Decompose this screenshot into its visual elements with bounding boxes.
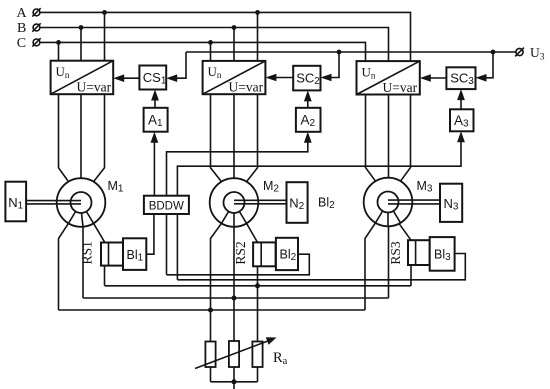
wire bus2 xyxy=(83,297,389,299)
wire rotor M2 left xyxy=(211,223,222,341)
svg-text:U=var: U=var xyxy=(383,80,418,95)
wire bus1 xyxy=(105,285,412,287)
wire rotor M1 mid xyxy=(82,227,84,299)
terminal C xyxy=(32,38,40,46)
wire A3 to SC3 xyxy=(460,92,462,109)
terminal U3 xyxy=(515,48,524,57)
junction U3-SC3 xyxy=(491,50,496,55)
junction A-U2 xyxy=(255,10,260,15)
junction rheostat bottom xyxy=(232,379,237,384)
wire signal line1 from Bl2 loop to A2 xyxy=(167,135,308,275)
wire B drop to U2 xyxy=(233,28,235,61)
sensor N2 box xyxy=(287,182,308,223)
converter U2 box xyxy=(203,61,266,95)
motor M1 xyxy=(57,178,106,227)
arrow into CS1 right xyxy=(166,74,177,82)
rheostat resistor left xyxy=(205,342,215,368)
junction bus2-M2 xyxy=(232,296,237,301)
wire H1 Bl2 output xyxy=(167,254,310,275)
wire SC2 to U2 xyxy=(268,77,293,79)
arrow into A2 bottom xyxy=(304,132,312,143)
wire C drop to U2 xyxy=(210,42,212,61)
sensor N3 box xyxy=(440,184,462,222)
svg-text:Bl2: Bl2 xyxy=(318,196,335,212)
wire below resistor mid xyxy=(233,367,235,382)
svg-text:U=var: U=var xyxy=(229,80,264,95)
wire A drop to U2 xyxy=(257,12,259,61)
svg-text:C: C xyxy=(17,36,26,51)
slip rings RS3 box xyxy=(408,240,430,265)
junction bus3-M2 xyxy=(208,308,213,313)
wire rotor M3 mid xyxy=(388,226,390,298)
wire rotor M3 right to RS3 xyxy=(399,223,412,241)
wire U3 to SC3 xyxy=(479,52,494,78)
wire phase C xyxy=(40,42,366,61)
wire stator M3 mid xyxy=(388,95,390,178)
wire A drop to U1 xyxy=(104,12,106,60)
svg-text:B: B xyxy=(17,21,26,36)
wire stator M2 mid xyxy=(233,94,235,178)
sensor N1 box xyxy=(5,182,26,222)
arrow into SC2 bottom xyxy=(304,90,312,101)
arrow into A1 bottom xyxy=(151,132,159,143)
amplifier A1 box xyxy=(144,108,168,132)
slip rings RS1 box xyxy=(101,243,124,266)
arrow into U2 right xyxy=(265,74,276,82)
shaft M3-N3 xyxy=(388,200,440,204)
wire U3 to SC2 xyxy=(324,52,340,78)
junction C-U1 xyxy=(56,40,61,45)
wire rotor M3 left xyxy=(365,223,376,310)
junction B-U1 xyxy=(79,25,84,30)
wire Bl1 to BDDW xyxy=(146,214,154,254)
wire rotor M2 mid xyxy=(233,227,235,341)
wire A1 to CS1 xyxy=(154,93,156,108)
terminal A xyxy=(32,8,40,16)
wire stator M3 left xyxy=(366,95,376,182)
wire phase B xyxy=(40,28,389,62)
wire BDDW to A1 xyxy=(153,135,155,196)
wire signal line2 from Bl3 loop to A3 xyxy=(177,135,461,280)
svg-text:RS2: RS2 xyxy=(233,241,248,264)
wire stator M3 right xyxy=(401,95,411,182)
wire rheostat bottom bar xyxy=(211,381,258,383)
wire C drop to U1 xyxy=(58,42,60,60)
shaft M1-N1 xyxy=(26,201,81,204)
svg-text:RS3: RS3 xyxy=(388,241,403,265)
arrow into SC3 bottom xyxy=(457,89,465,100)
wire RS2 bottom to rheostat xyxy=(257,266,259,341)
svg-text:U3: U3 xyxy=(530,45,545,63)
wire U3 to CS1 xyxy=(169,52,186,78)
svg-text:Ra: Ra xyxy=(273,350,288,367)
node U3 line xyxy=(186,51,516,53)
svg-text:RS1: RS1 xyxy=(80,241,95,264)
brushes Bl1 box xyxy=(123,238,146,270)
motor M2 xyxy=(210,178,259,227)
junction C-U2 xyxy=(208,40,213,45)
arrow into A3 bottom xyxy=(457,131,465,142)
arrow into U1 right xyxy=(113,74,124,82)
wire below resistor left xyxy=(210,367,212,382)
regulator CS1 box xyxy=(139,66,166,90)
wire RS1 bottom to bus1 xyxy=(104,266,106,286)
wire stator M2 right xyxy=(247,94,258,182)
wire A2 to SC2 xyxy=(307,93,309,107)
wire SC3 to U3 xyxy=(423,77,447,79)
wire stator M1 left xyxy=(59,94,69,182)
amplifier A3 box xyxy=(450,109,474,131)
svg-text:M1: M1 xyxy=(108,179,124,195)
wire rotor M2 right to RS2 xyxy=(247,223,258,243)
arrow into U3 right xyxy=(420,74,431,82)
rheostat resistor right xyxy=(252,342,262,368)
regulator SC3 box xyxy=(446,67,475,89)
wire RS3 bottom to bus1 xyxy=(410,265,412,286)
svg-text:A: A xyxy=(17,6,28,21)
motor M3 xyxy=(364,178,413,227)
wire stator M1 right xyxy=(94,94,105,182)
wire H2 Bl3 output xyxy=(177,254,465,280)
brushes Bl3 box xyxy=(430,237,455,271)
svg-text:M3: M3 xyxy=(417,179,433,195)
arrow into SC3 right xyxy=(476,74,487,82)
wire rheostat tail xyxy=(233,382,235,389)
amplifier A2 box xyxy=(296,108,321,132)
junction B-U2 xyxy=(232,25,237,30)
arrow into SC2 right xyxy=(321,74,332,82)
junction bus1-RS2 xyxy=(255,283,260,288)
junction U3-SC2 xyxy=(337,50,342,55)
wire rotor M1 right to RS1 xyxy=(94,223,105,242)
wire B drop to U1 xyxy=(80,28,82,61)
rheostat arrow Ra xyxy=(195,337,277,368)
converter U1 box xyxy=(51,61,114,95)
regulator SC2 box xyxy=(293,66,320,91)
brushes Bl2 box xyxy=(276,238,298,270)
svg-text:U=var: U=var xyxy=(77,80,112,95)
shaft M2-N2 xyxy=(234,200,287,204)
svg-text:M2: M2 xyxy=(263,179,279,195)
slip rings RS2 box xyxy=(253,242,276,266)
converter machine BDDW box xyxy=(144,196,189,214)
wire below resistor right xyxy=(257,367,259,382)
terminal B xyxy=(32,23,40,31)
rheostat resistor mid xyxy=(229,341,239,367)
svg-text:BDDW: BDDW xyxy=(149,200,184,212)
wire rotor M1 left xyxy=(59,223,69,310)
wire stator M1 mid xyxy=(80,94,82,178)
arrow into CS1 bottom xyxy=(151,90,159,101)
wire phase A xyxy=(40,12,411,61)
converter U3 box xyxy=(357,61,420,95)
junction A-U1 xyxy=(102,10,107,15)
wire CS1 to U1 xyxy=(116,77,139,79)
wire stator M2 left xyxy=(211,94,222,182)
wire bus3 xyxy=(59,309,366,311)
